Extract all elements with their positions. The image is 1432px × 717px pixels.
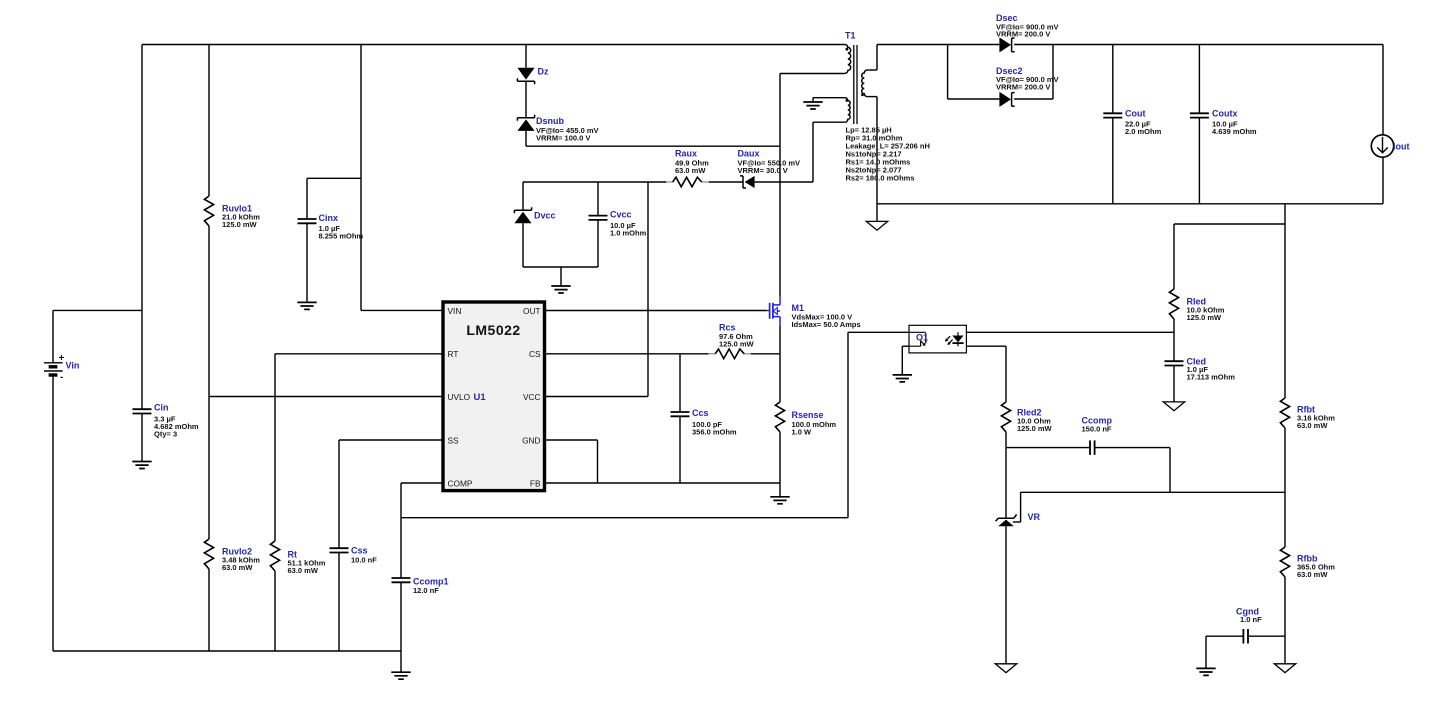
svg-text:SS: SS: [448, 435, 460, 445]
svg-text:Css: Css: [351, 546, 368, 556]
svg-text:CS: CS: [529, 349, 541, 359]
capacitor Cled: [1165, 361, 1184, 365]
wire opto collector horizontal: [848, 331, 909, 333]
source Iout current source: [1371, 135, 1393, 157]
wire opto collector vertical: [847, 332, 849, 517]
svg-text:125.0 mW: 125.0 mW: [1187, 313, 1223, 322]
svg-text:Coutx: Coutx: [1212, 109, 1238, 119]
wire Rfbb bottom lead: [1284, 577, 1286, 636]
wire Cinx vertical lower: [306, 223, 308, 302]
ground below Cin: [132, 462, 151, 469]
wire Dsec2 branch left horizontal: [948, 98, 1000, 100]
wire FB pin to ground rail: [545, 482, 780, 484]
resistor Ruvlo2: [204, 539, 213, 569]
wire led node horizontal: [1174, 223, 1285, 225]
svg-text:O1: O1: [916, 333, 928, 343]
ground below Cinx: [297, 302, 316, 309]
optocoupler O1 box: [909, 325, 966, 353]
diode Daux: [740, 176, 746, 188]
capacitor Coutx: [1190, 113, 1209, 117]
wire Ccomp1 ground stub: [400, 651, 402, 672]
svg-text:VRRM= 200.0 V: VRRM= 200.0 V: [996, 30, 1050, 39]
svg-text:VRRM= 200.0 V: VRRM= 200.0 V: [996, 82, 1050, 91]
svg-text:1.0 nF: 1.0 nF: [1240, 615, 1262, 624]
svg-text:U1: U1: [474, 392, 487, 403]
diode Dz: [517, 68, 534, 80]
ground secondary triangle: [866, 221, 887, 230]
svg-text:-: -: [60, 372, 63, 383]
wire Dsec2 branch left vertical: [947, 45, 949, 100]
wire Rsense ground stub: [779, 483, 781, 497]
wire Cvcc top lead: [597, 182, 599, 216]
wire Dvcc bottom lead: [522, 223, 524, 267]
wire secondary top lead: [867, 69, 877, 71]
ground below Rfbb: [1274, 664, 1295, 673]
svg-text:COMP: COMP: [448, 478, 473, 488]
wire Ccomp1 vertical lower: [400, 582, 402, 651]
wire VR bottom lead: [1005, 526, 1007, 664]
svg-text:125.0 mW: 125.0 mW: [1017, 424, 1053, 433]
wire secondary bottom vertical: [876, 97, 878, 222]
capacitor Ccs: [671, 412, 690, 416]
capacitor Ccomp1: [392, 578, 411, 582]
ground aux winding: [803, 102, 822, 109]
capacitor Ccomp: [1090, 440, 1095, 455]
wire Cin bottom lead: [141, 414, 143, 462]
svg-text:63.0 mW: 63.0 mW: [222, 563, 253, 572]
wire UVLO pin: [209, 396, 443, 398]
wire snubber branch top: [525, 45, 527, 68]
resistor Rfbb: [1280, 547, 1289, 577]
svg-text:Rs2= 180.0 mOhms: Rs2= 180.0 mOhms: [846, 174, 915, 183]
wire Dsec2 branch right vertical: [1052, 45, 1054, 100]
wire COMP long horizontal: [401, 517, 848, 519]
resistor Raux: [666, 181, 673, 183]
wire VR ref tap: [1013, 521, 1021, 523]
resistor Rcs: [709, 353, 716, 355]
transformer T1: [854, 45, 857, 124]
source Vin battery: [44, 362, 63, 364]
wire output top rail: [1014, 44, 1383, 46]
wire Rcs to source node: [751, 353, 780, 355]
wire Rled top lead: [1173, 224, 1175, 289]
wire aux down vertical: [812, 122, 814, 182]
wire Cled bottom lead: [1173, 366, 1175, 402]
wire Coutx top lead: [1198, 45, 1200, 114]
wire Css vertical upper: [338, 440, 340, 548]
svg-text:Cin: Cin: [154, 403, 169, 413]
diode Dvcc: [514, 207, 531, 213]
resistor Rt: [270, 541, 279, 571]
svg-text:Dsec: Dsec: [996, 13, 1018, 23]
svg-text:VCC: VCC: [523, 392, 541, 402]
resistor Ruvlo1: [204, 196, 213, 226]
wire top input rail: [142, 44, 845, 46]
wire OUT pin to gate: [545, 310, 766, 312]
svg-text:FB: FB: [530, 478, 541, 488]
wire battery bottom lead: [52, 376, 54, 651]
wire Rfbb top lead: [1284, 492, 1286, 547]
svg-text:Raux: Raux: [675, 149, 697, 159]
svg-text:12.0 nF: 12.0 nF: [413, 586, 439, 595]
diode Dsec2: [999, 92, 1011, 107]
wire Ccomp1 vertical upper: [400, 483, 402, 578]
wire Ccs bottom lead: [679, 416, 681, 483]
svg-text:10.0 nF: 10.0 nF: [351, 556, 377, 565]
capacitor Css: [330, 548, 349, 552]
wire VIN pin: [361, 309, 443, 311]
wire Cout top lead: [1112, 45, 1114, 114]
wire VR top lead: [1005, 448, 1007, 519]
wire Ccs top lead: [679, 354, 681, 412]
svg-text:IdsMax= 50.0 Amps: IdsMax= 50.0 Amps: [792, 320, 861, 329]
wire M1 drain vertical: [779, 74, 781, 297]
svg-text:4.639 mOhm: 4.639 mOhm: [1212, 127, 1257, 136]
svg-text:63.0 mW: 63.0 mW: [288, 566, 319, 575]
svg-text:Cvcc: Cvcc: [610, 210, 632, 220]
svg-text:RT: RT: [448, 349, 459, 359]
optocoupler O1 light arrows: [946, 336, 953, 344]
optocoupler O1 led: [957, 332, 959, 335]
wire GND pin: [545, 439, 598, 441]
svg-text:125.0 mW: 125.0 mW: [222, 220, 258, 229]
svg-text:Dz: Dz: [538, 67, 549, 77]
wire Rled2 bottom lead: [1005, 432, 1007, 448]
wire Daux to aux winding: [755, 181, 813, 183]
wire aux bottom lead: [813, 121, 845, 123]
transistor M1: [766, 310, 769, 312]
ground opto emitter: [893, 375, 912, 382]
wire Rfbt top lead: [1284, 224, 1286, 398]
wire VR feedback rail: [1021, 491, 1285, 493]
wire RT pin: [275, 353, 443, 355]
diode Dsec: [999, 37, 1011, 52]
capacitor Cinx: [298, 219, 317, 223]
svg-text:Rsense: Rsense: [792, 410, 824, 420]
wire Cgnd left lead: [1206, 635, 1243, 637]
wire snubber to drain: [526, 145, 780, 147]
svg-text:17.113 mOhm: 17.113 mOhm: [1187, 373, 1236, 382]
wire opto emitter ground stub: [901, 346, 903, 375]
wire led rail drop: [1284, 204, 1286, 224]
svg-text:VR: VR: [1028, 512, 1041, 522]
wire aux top lead: [813, 97, 845, 99]
capacitor Cgnd: [1243, 629, 1248, 644]
svg-text:Rcs: Rcs: [719, 323, 736, 333]
resistor Rfbt: [1280, 398, 1289, 428]
resistor Rsense: [775, 402, 784, 432]
svg-text:+: +: [59, 353, 65, 364]
resistor Rled: [1169, 289, 1178, 319]
wire CS pin to Rcs: [545, 353, 709, 355]
ground below Rsense: [770, 497, 789, 504]
svg-text:GND: GND: [522, 435, 540, 445]
svg-text:1.0 W: 1.0 W: [792, 428, 813, 437]
wire opto cathode to Rled2: [966, 345, 1006, 347]
svg-text:VRRM= 100.0 V: VRRM= 100.0 V: [536, 134, 590, 143]
svg-text:63.0 mW: 63.0 mW: [1297, 570, 1328, 579]
wire secondary bottom lead: [867, 96, 877, 98]
svg-text:2.0 mOhm: 2.0 mOhm: [1125, 127, 1162, 136]
wire Ruvlo branch vertical middle: [208, 226, 210, 539]
wire Coutx bottom lead: [1198, 118, 1200, 204]
ground below VR: [995, 664, 1016, 673]
wire VCC node horizontal: [523, 181, 666, 183]
wire opto emitter lead: [902, 345, 909, 347]
shunt regulator VR: [996, 515, 1017, 522]
wire SS pin: [339, 439, 443, 441]
svg-text:63.0 mW: 63.0 mW: [675, 166, 706, 175]
wire M1 source to Rsense: [779, 326, 781, 402]
wire Cgnd ground drop: [1205, 636, 1207, 668]
diode Dsnub: [517, 115, 534, 121]
svg-text:Dsnub: Dsnub: [536, 116, 565, 126]
wire Cinx stub: [307, 177, 361, 179]
wire battery top lead: [52, 310, 54, 362]
wire Ruvlo branch vertical upper: [208, 45, 210, 197]
svg-text:OUT: OUT: [523, 306, 541, 316]
svg-text:UVLO: UVLO: [448, 392, 471, 402]
wire VCC feed vertical: [647, 182, 649, 397]
wire Cin branch vertical: [141, 45, 143, 410]
svg-text:Cout: Cout: [1125, 109, 1146, 119]
svg-text:Qty= 3: Qty= 3: [154, 430, 177, 439]
wire Rled bottom to Cled: [1173, 319, 1175, 361]
wire Rfbt bottom lead: [1284, 428, 1286, 492]
wire VIN feed vertical: [360, 45, 362, 311]
wire Rled2 top lead: [1005, 346, 1007, 402]
wire GND pin drop: [597, 440, 599, 483]
svg-text:356.0 mOhm: 356.0 mOhm: [692, 428, 737, 437]
capacitor Cin: [133, 409, 152, 413]
wire Ruvlo branch vertical lower: [208, 569, 210, 651]
capacitor Cout: [1103, 113, 1122, 117]
svg-text:VIN: VIN: [448, 306, 462, 316]
ground below Ccomp1: [391, 672, 410, 679]
wire Dsnub to node: [525, 131, 527, 146]
wire secondary top vertical: [876, 45, 878, 71]
svg-text:125.0 mW: 125.0 mW: [719, 340, 755, 349]
svg-text:Ccs: Ccs: [692, 408, 709, 418]
wire Rt vertical upper: [274, 354, 276, 541]
wire opto anode to Rled node: [966, 331, 1174, 333]
wire Dz to Dsnub: [525, 81, 527, 118]
wire Cinx vertical upper: [306, 178, 308, 219]
svg-text:T1: T1: [845, 31, 856, 41]
svg-text:63.0 mW: 63.0 mW: [1297, 421, 1328, 430]
wire Cvcc bottom lead: [597, 220, 599, 267]
svg-text:VRRM= 30.0 V: VRRM= 30.0 V: [738, 166, 788, 175]
wire Dvcc top lead: [522, 182, 524, 210]
wire VR ref vertical: [1020, 492, 1022, 522]
capacitor Cvcc: [589, 216, 608, 220]
svg-text:LM5022: LM5022: [466, 322, 520, 338]
ground below Cled: [1163, 402, 1184, 411]
wire Dvcc-Cvcc bottom: [523, 266, 598, 268]
wire Rt vertical lower: [274, 571, 276, 651]
wire Cgnd right lead: [1248, 635, 1285, 637]
svg-text:8.255 mOhm: 8.255 mOhm: [319, 232, 364, 241]
wire secondary rail to Dsec: [877, 44, 999, 46]
svg-text:M1: M1: [792, 303, 805, 313]
svg-text:Iout: Iout: [1393, 142, 1410, 152]
wire Dsec2 branch right horizontal: [1014, 98, 1053, 100]
wire Rled2 to Ccomp: [1006, 447, 1090, 449]
wire VCC pin: [545, 396, 648, 398]
svg-text:Ccomp1: Ccomp1: [413, 577, 449, 587]
wire bottom ground rail: [53, 650, 401, 652]
wire Cout bottom lead: [1112, 118, 1114, 204]
wire COMP pin: [401, 482, 443, 484]
svg-text:Cinx: Cinx: [319, 213, 339, 223]
wire Ccomp to comp node: [1095, 447, 1170, 449]
wire primary bottom lead: [780, 73, 845, 75]
svg-text:150.0 nF: 150.0 nF: [1082, 425, 1112, 434]
wire aux ground stub: [812, 98, 814, 102]
op-amp U1 LM5022 box: [443, 302, 545, 491]
svg-text:Dvcc: Dvcc: [534, 211, 556, 221]
resistor Rled2: [1001, 402, 1010, 432]
wire comp node drop: [1169, 448, 1171, 493]
optocoupler O1 phototransistor: [909, 331, 926, 333]
ground left of Cgnd: [1196, 668, 1215, 675]
wire Iout vertical: [1382, 45, 1384, 204]
wire Rsense bottom lead: [779, 432, 781, 483]
wire Raux to Daux: [709, 181, 743, 183]
wire output bottom rail: [877, 203, 1383, 205]
svg-text:Vin: Vin: [66, 361, 80, 371]
wire battery top to Cin branch: [53, 309, 142, 311]
wire Css vertical lower: [338, 553, 340, 652]
svg-text:1.0 mOhm: 1.0 mOhm: [610, 229, 647, 238]
ground below Dvcc Cvcc: [551, 286, 570, 293]
wire Rfbb to ground triangle: [1284, 636, 1286, 664]
svg-text:Daux: Daux: [738, 149, 760, 159]
wire Cvcc ground stub: [560, 267, 562, 286]
